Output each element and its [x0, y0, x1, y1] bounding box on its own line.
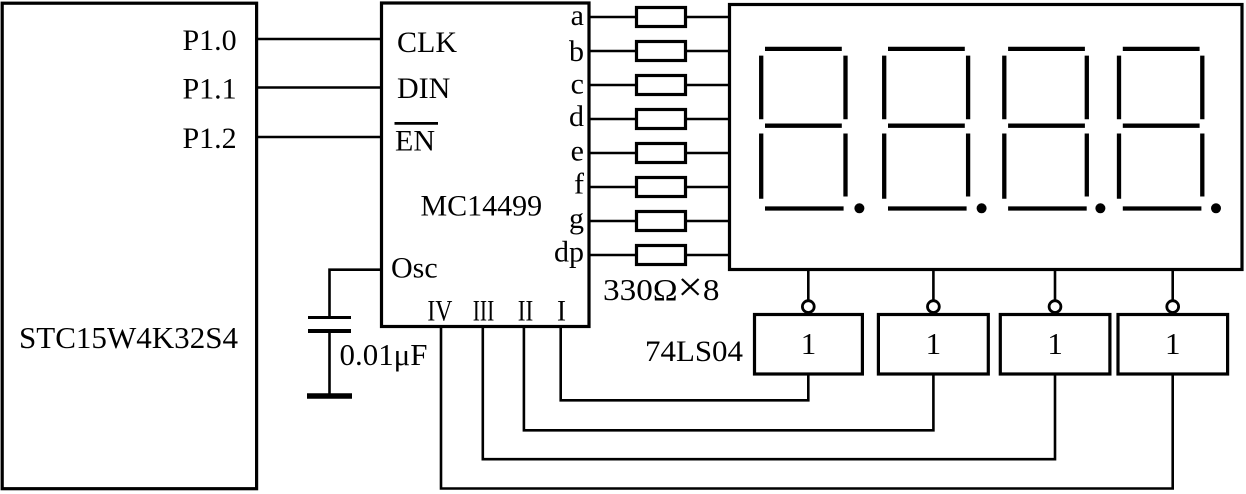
wire R4 to display — [686, 118, 730, 121]
resistor R7 — [637, 212, 686, 231]
wire R7 to display — [686, 220, 730, 223]
digit 4 segments — [1119, 49, 1202, 209]
EN overline — [395, 122, 439, 125]
resistor R4 — [637, 110, 686, 129]
wire c to R3 — [589, 84, 637, 87]
svg-text:1: 1 — [1047, 326, 1063, 361]
wire R6 to display — [686, 186, 730, 189]
wire P1.1 to DIN — [255, 86, 382, 89]
svg-text:CLK: CLK — [397, 26, 457, 59]
wire a to R1 — [589, 16, 637, 19]
wire display digit4 common to inverter bubble 4 — [1171, 270, 1174, 301]
wire R3 to display — [686, 84, 730, 87]
capacitor C1 top plate — [308, 316, 351, 319]
inverter U2A bubble — [802, 301, 814, 313]
resistor R1 — [637, 8, 686, 27]
ground — [307, 393, 352, 399]
svg-text:Osc: Osc — [391, 252, 438, 285]
wire capacitor C1 to ground — [328, 331, 331, 396]
inverter U2C body — [1000, 315, 1110, 375]
svg-text:MC14499: MC14499 — [421, 189, 543, 222]
wire pin IV to inverter U2D input — [441, 327, 1173, 489]
decimal point dp4 — [1211, 203, 1221, 213]
svg-text:EN: EN — [395, 125, 435, 158]
wire R8 to display — [686, 254, 730, 257]
wire R2 to display — [686, 50, 730, 53]
inverter U2A body — [755, 315, 863, 375]
svg-text:g: g — [569, 202, 584, 235]
inverter U2B bubble — [928, 301, 940, 313]
wire pin III to inverter U2C input — [483, 327, 1055, 460]
wire f to R6 — [589, 186, 637, 189]
inverter U2D bubble — [1167, 301, 1179, 313]
svg-text:II: II — [518, 295, 534, 328]
wire P1.0 to CLK — [255, 38, 382, 41]
digit 3 segments — [1004, 49, 1087, 209]
svg-text:e: e — [571, 135, 584, 168]
svg-text:IV: IV — [427, 295, 452, 328]
svg-text:a: a — [571, 0, 584, 32]
resistor R6 — [637, 178, 686, 197]
svg-text:1: 1 — [1165, 326, 1181, 361]
inverter U2B body — [878, 315, 988, 375]
wire R1 to display — [686, 16, 730, 19]
svg-text:III: III — [473, 295, 495, 328]
svg-text:1: 1 — [926, 326, 942, 361]
svg-text:P1.1: P1.1 — [183, 73, 237, 106]
svg-text:P1.0: P1.0 — [183, 24, 237, 57]
wire pin II to inverter U2B input — [524, 327, 934, 431]
4-digit 7-segment LED display body — [730, 5, 1243, 270]
resistor R3 — [637, 76, 686, 95]
wire e to R5 — [589, 152, 637, 155]
wire dp to R8 — [589, 254, 637, 257]
svg-text:dp: dp — [554, 236, 584, 269]
digit 1 segments — [761, 49, 845, 209]
svg-text:74LS04: 74LS04 — [645, 335, 743, 368]
svg-text:I: I — [557, 295, 566, 328]
decimal point dp3 — [1095, 203, 1105, 213]
svg-text:d: d — [569, 100, 584, 133]
svg-text:330Ω×8: 330Ω×8 — [603, 265, 720, 311]
wire pin I to inverter U2A input — [561, 327, 809, 401]
svg-text:DIN: DIN — [397, 72, 450, 105]
svg-text:1: 1 — [801, 326, 817, 361]
capacitor C1 bottom plate — [308, 329, 351, 333]
wire P1.2 to EN — [255, 136, 382, 139]
svg-text:f: f — [574, 168, 584, 201]
wire display digit1 common to inverter bubble 1 — [807, 270, 810, 301]
resistor R8 — [637, 246, 686, 265]
wire Osc to capacitor C1 — [330, 270, 382, 317]
wire d to R4 — [589, 118, 637, 121]
digit 2 segments — [884, 49, 968, 209]
resistor R2 — [637, 42, 686, 61]
svg-text:b: b — [569, 35, 584, 68]
wire display digit3 common to inverter bubble 3 — [1054, 270, 1057, 301]
svg-text:c: c — [571, 68, 584, 101]
resistor R5 — [637, 144, 686, 163]
svg-text:0.01μF: 0.01μF — [340, 337, 428, 372]
svg-text:STC15W4K32S4: STC15W4K32S4 — [19, 320, 238, 355]
wire b to R2 — [589, 50, 637, 53]
wire R5 to display — [686, 152, 730, 155]
wire g to R7 — [589, 220, 637, 223]
inverter U2C bubble — [1049, 301, 1061, 313]
MCU STC15W4K32S4 body — [2, 3, 256, 489]
wire display digit2 common to inverter bubble 2 — [932, 270, 935, 301]
decimal point dp2 — [977, 203, 987, 213]
inverter U2D body — [1118, 315, 1228, 375]
display driver IC MC14499 body — [382, 3, 590, 327]
decimal point dp1 — [854, 203, 864, 213]
svg-text:P1.2: P1.2 — [183, 122, 237, 155]
